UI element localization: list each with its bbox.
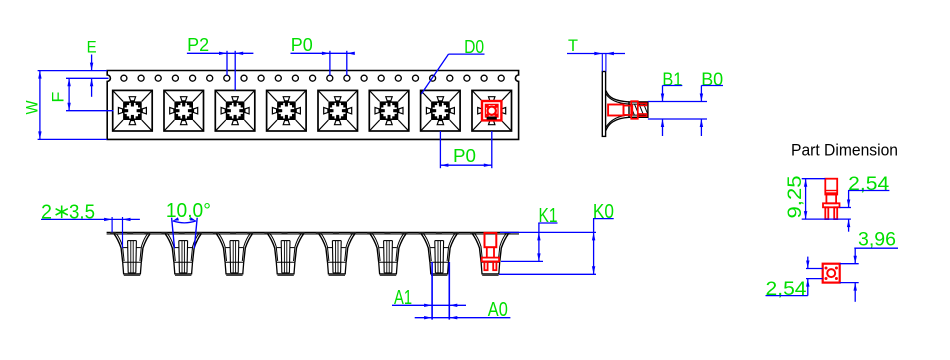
svg-text:2,54: 2,54	[848, 174, 889, 195]
svg-text:9,25: 9,25	[785, 176, 806, 219]
svg-text:2: 2	[41, 202, 52, 224]
svg-text:B0: B0	[701, 69, 723, 89]
svg-text:10,0°: 10,0°	[166, 200, 211, 222]
svg-text:F: F	[49, 92, 68, 103]
svg-text:K0: K0	[593, 201, 614, 223]
svg-text:3.5: 3.5	[69, 202, 95, 224]
svg-text:Part Dimension: Part Dimension	[791, 141, 898, 160]
svg-text:P0: P0	[453, 146, 476, 166]
svg-text:3,96: 3,96	[858, 229, 896, 250]
svg-text:W: W	[23, 101, 42, 115]
svg-text:E: E	[87, 38, 97, 57]
svg-text:P0: P0	[291, 35, 313, 55]
svg-text:B1: B1	[662, 69, 682, 89]
svg-text:T: T	[568, 36, 578, 55]
svg-text:P2: P2	[187, 35, 209, 55]
svg-text:2,54: 2,54	[766, 279, 807, 300]
